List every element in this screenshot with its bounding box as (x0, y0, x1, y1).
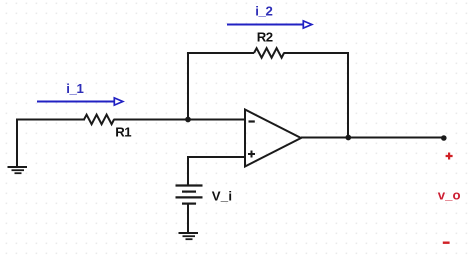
junction: output node (345, 135, 351, 141)
battery V_i (176, 186, 203, 204)
current arrow i_2 (227, 21, 312, 28)
wire: non-inverting input horizontal (188, 156, 245, 158)
op-amp U1 (245, 110, 301, 167)
wire: left horizontal segment to R1 (16, 119, 85, 121)
wire: feedback vertical from inverting node up to R2 line (187, 53, 189, 120)
pin - (inverting input marker) (249, 120, 255, 122)
wire: R2 to right corner (284, 52, 349, 54)
resistor R2 (254, 48, 284, 58)
resistor R1 (84, 115, 114, 125)
svg-text:v_o: v_o (438, 188, 461, 203)
wire: top horizontal from feedback corner to R2 (187, 52, 254, 54)
wire: battery bottom to ground (187, 204, 189, 233)
wire: R1 to op-amp inverting input (114, 119, 246, 121)
svg-text:V_i: V_i (212, 188, 232, 203)
current arrow i_1 (37, 98, 123, 105)
svg-text:R2: R2 (257, 30, 273, 45)
wire: left vertical from ground up to input line (16, 120, 18, 168)
wire: op-amp output (301, 137, 444, 139)
wire: right vertical down to output line (347, 52, 349, 138)
svg-text:i_1: i_1 (66, 81, 83, 96)
junction: inverting input node (185, 117, 191, 123)
pin + (non-inverting input marker) (248, 151, 255, 158)
wire: corner down to battery top (187, 156, 189, 186)
ground (left, at input) (8, 167, 28, 173)
label + (output positive polarity) (446, 153, 453, 160)
label - (output negative polarity) (443, 241, 450, 243)
terminal dot: v_o output end (441, 135, 447, 141)
svg-text:R1: R1 (115, 124, 131, 139)
svg-text:i_2: i_2 (255, 3, 272, 18)
ground (below battery) (179, 233, 199, 239)
